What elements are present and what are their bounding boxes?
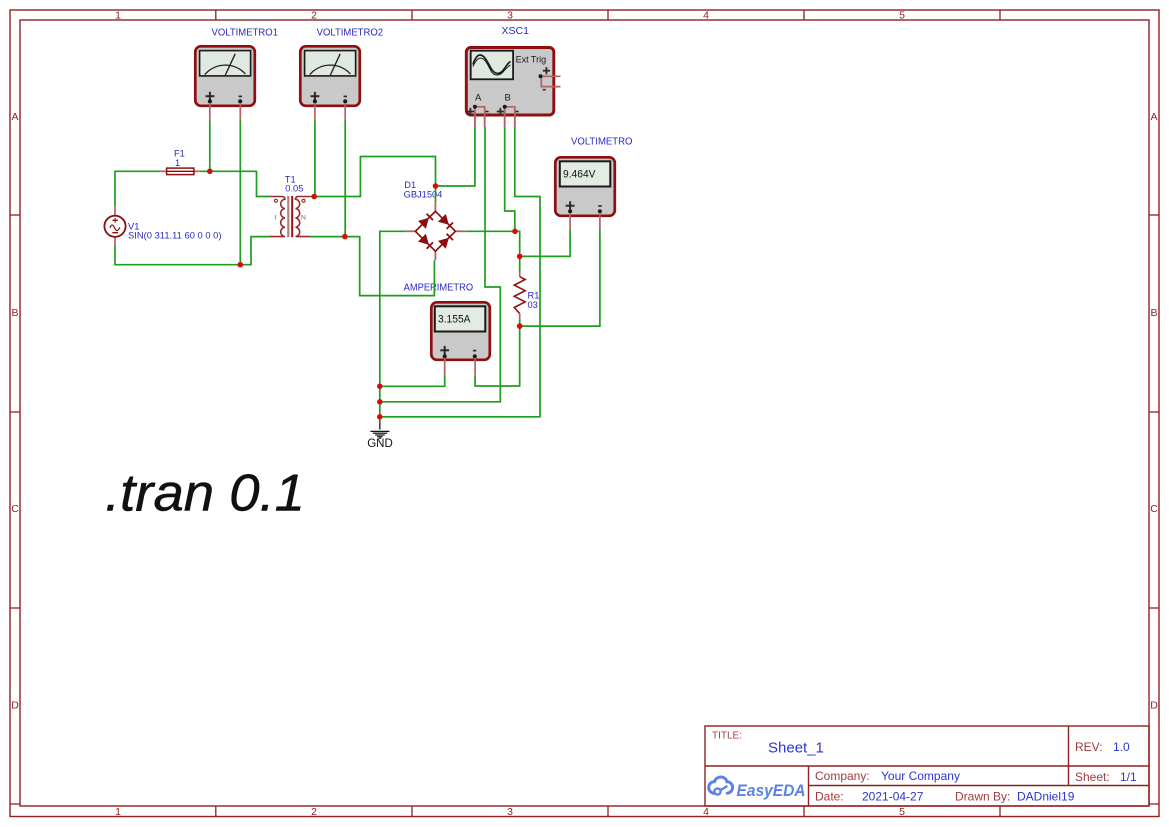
EasyEDA logo text	[737, 782, 806, 800]
title block Company row	[815, 769, 960, 783]
frame ruler numbers top	[115, 10, 905, 22]
oscilloscope XSC1 body	[466, 48, 554, 116]
label VOLTIMETRO2	[317, 27, 384, 39]
svg-text:TITLE:: TITLE:	[712, 731, 742, 742]
svg-text:VOLTIMETRO1: VOLTIMETRO1	[212, 27, 279, 39]
wire voltmeter2 plus drop	[314, 121, 316, 197]
svg-text:2: 2	[311, 806, 317, 818]
wire voltmeter1 minus drop	[239, 121, 241, 265]
wire ground node to scope B minus	[380, 127, 540, 417]
svg-text:VOLTIMETRO: VOLTIMETRO	[571, 136, 633, 148]
svg-text:Date:: Date:	[815, 790, 844, 804]
svg-text:5: 5	[899, 806, 905, 818]
svg-text:C: C	[1150, 503, 1158, 515]
frame ruler numbers bottom	[115, 806, 905, 818]
EasyEDA logo cloud	[709, 777, 733, 795]
svg-text:D: D	[11, 700, 19, 712]
label VOLTIMETRO	[571, 136, 633, 148]
svg-text:1: 1	[115, 806, 121, 818]
wire fuse to T1 primary top	[200, 171, 270, 196]
label F1 value	[174, 149, 185, 168]
svg-text:GBJ1504: GBJ1504	[404, 189, 443, 199]
svg-text:1.0: 1.0	[1113, 740, 1130, 754]
junction node ground C	[377, 414, 383, 420]
junction node T1 secondary bottom	[342, 234, 348, 240]
svg-text:B: B	[1150, 307, 1157, 319]
svg-text:2021-04-27: 2021-04-27	[862, 790, 924, 804]
wire D1 top node to scope A plus	[436, 127, 475, 186]
wire D1 right to R1 top	[465, 231, 519, 271]
ground GND	[367, 420, 393, 450]
bridge rectifier D1	[406, 202, 466, 260]
title block lines	[705, 726, 1149, 806]
junction node R1 top	[517, 254, 523, 260]
junction node ground B	[377, 399, 383, 405]
svg-text:C: C	[11, 503, 19, 515]
svg-text:SIN(0 311.11 60 0 0 0): SIN(0 311.11 60 0 0 0)	[128, 231, 222, 241]
svg-text:Your Company: Your Company	[881, 769, 960, 783]
frame ruler letters left	[11, 111, 19, 712]
label D1 value	[404, 180, 443, 199]
pin stub ammeter	[445, 358, 475, 375]
pin stub voltmeter display	[570, 213, 600, 230]
svg-text:1/1: 1/1	[1120, 770, 1137, 784]
junction node D1 top	[433, 183, 439, 189]
title block TITLE label	[712, 731, 742, 742]
svg-text:Company:: Company:	[815, 769, 870, 783]
pin stub voltmeter1 plus	[210, 103, 241, 121]
svg-text:3: 3	[507, 806, 513, 818]
svg-text:5: 5	[899, 10, 905, 22]
svg-text:.tran 0.1: .tran 0.1	[105, 465, 305, 523]
svg-text:0.05: 0.05	[285, 184, 303, 194]
svg-text:03: 03	[528, 300, 538, 310]
junction node fuse output	[207, 169, 213, 175]
wire R1 bottom to ammeter minus	[475, 320, 520, 386]
junction node D1 right output	[512, 229, 518, 235]
transformer T1	[270, 196, 310, 237]
ammeter AMPERIMETRO body	[431, 302, 490, 360]
svg-text:Ext Trig: Ext Trig	[516, 55, 547, 65]
title block Date row	[815, 790, 1075, 804]
label V1 value	[128, 221, 222, 240]
pin stub voltmeter2	[315, 103, 345, 121]
voltmeter VOLTIMETRO2 body	[300, 46, 360, 106]
title block sheet name	[768, 740, 824, 757]
svg-text:4: 4	[703, 10, 709, 22]
svg-text:4: 4	[703, 806, 709, 818]
label R1 value	[528, 290, 540, 310]
oscilloscope XSC1 pin dots	[473, 74, 543, 109]
fuse F1	[160, 168, 200, 175]
svg-text:B: B	[505, 93, 511, 104]
svg-text:Sheet_1: Sheet_1	[768, 740, 824, 757]
wire ground node to scope A minus	[380, 127, 501, 402]
wire V1 plus to fuse	[115, 171, 160, 206]
svg-text:N: N	[301, 214, 306, 221]
svg-text:2: 2	[311, 10, 317, 22]
svg-text:REV:: REV:	[1075, 740, 1103, 754]
svg-text:1: 1	[175, 158, 180, 168]
svg-text:9.464V: 9.464V	[563, 169, 596, 181]
svg-text:DADniel19: DADniel19	[1017, 790, 1075, 804]
wire D1 left to ground trunk	[380, 231, 406, 420]
wire voltmeter1 plus drop	[209, 121, 211, 172]
svg-text:A: A	[475, 93, 482, 104]
svg-text:B: B	[11, 307, 18, 319]
svg-text:XSC1: XSC1	[502, 25, 530, 37]
junction node V1 bottom wire	[238, 262, 244, 268]
svg-text:1: 1	[115, 10, 121, 22]
wire V1 minus to T1 primary bottom	[115, 237, 270, 265]
junction node T1 secondary top	[311, 194, 317, 200]
resistor R1	[514, 272, 525, 321]
pin stub scope channels	[475, 114, 515, 127]
wire T1 secondary top to D1 top node	[310, 157, 435, 203]
junction node ground A	[377, 384, 383, 390]
svg-text:I: I	[275, 214, 277, 221]
wire R1 top node to voltmeter plus	[520, 230, 570, 256]
svg-text:D: D	[1150, 700, 1158, 712]
label VOLTIMETRO1	[212, 27, 279, 39]
svg-text:R1: R1	[528, 290, 540, 300]
voltage source V1	[104, 206, 125, 246]
voltmeter VOLTIMETRO display body	[555, 157, 615, 216]
svg-text:EasyEDA: EasyEDA	[737, 782, 806, 800]
label T1 value	[285, 174, 304, 193]
svg-text:Sheet:: Sheet:	[1075, 770, 1110, 784]
wire B plus riser	[505, 127, 515, 231]
svg-text:AMPERIMETRO: AMPERIMETRO	[404, 281, 474, 293]
svg-text:GND: GND	[367, 438, 393, 450]
voltmeter U? VOLTIMETRO1 body	[195, 46, 255, 106]
label XSC1	[502, 25, 530, 37]
label AMPERIMETRO	[404, 281, 474, 293]
junction node R1 bottom	[517, 323, 523, 329]
frame ruler letters right	[1150, 111, 1158, 712]
svg-text:Drawn By:: Drawn By:	[955, 790, 1010, 804]
wire R1 bottom node to voltmeter minus	[520, 230, 600, 326]
title block REV	[1075, 740, 1130, 754]
wire ground node to ammeter plus	[380, 375, 445, 387]
svg-text:3: 3	[507, 10, 513, 22]
svg-text:A: A	[11, 111, 18, 123]
title block Sheet row	[1075, 770, 1137, 784]
oscilloscope XSC1 pin brackets and trig stubs	[475, 76, 561, 127]
wire voltmeter2 minus drop	[344, 121, 346, 237]
svg-text:VOLTIMETRO2: VOLTIMETRO2	[317, 27, 384, 39]
spice directive text .tran 0.1	[105, 465, 305, 523]
svg-text:3.155A: 3.155A	[438, 314, 471, 326]
wire T1 secondary bottom to D1 bottom	[310, 237, 434, 296]
svg-text:A: A	[1150, 111, 1157, 123]
